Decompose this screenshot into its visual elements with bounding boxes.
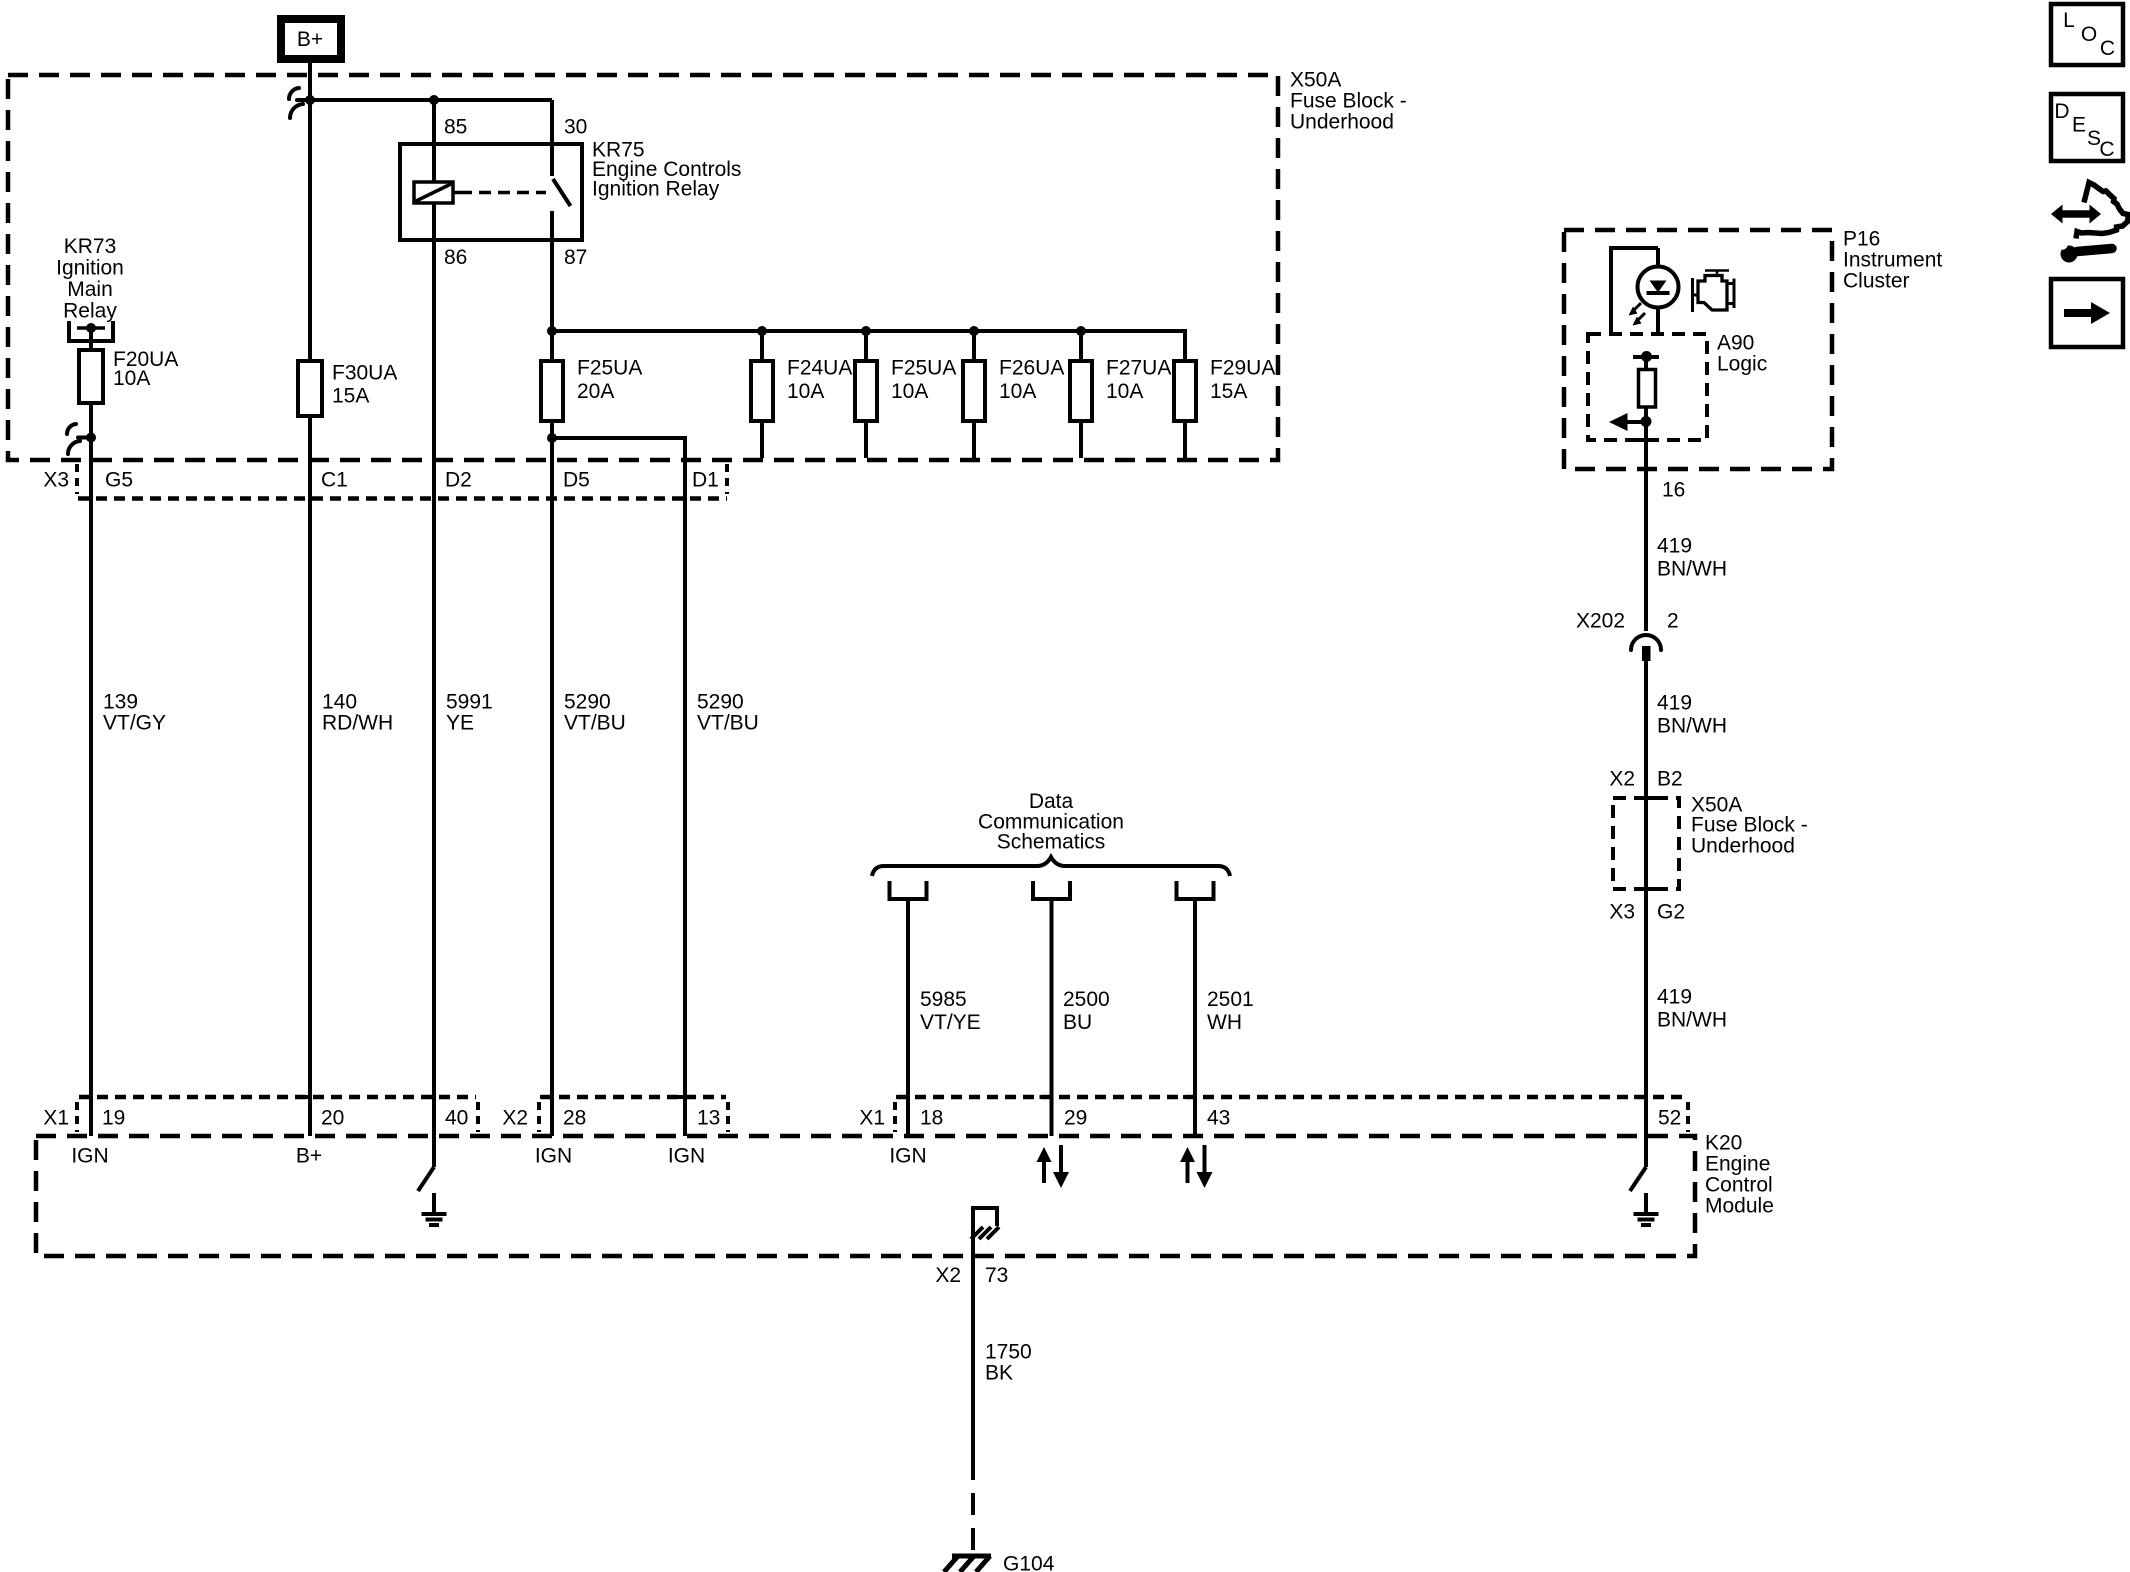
svg-text:F24UA: F24UA [787, 357, 852, 380]
svg-text:WH: WH [1207, 1011, 1242, 1034]
svg-text:G104: G104 [1003, 1553, 1055, 1572]
connector row X3 separators [77, 464, 727, 494]
svg-text:P16: P16 [1843, 228, 1880, 251]
connector to schematic 1 [890, 881, 927, 899]
wire B+ lower to pin 20 [308, 416, 312, 1136]
brace for data communication [872, 857, 1230, 876]
svg-text:10A: 10A [113, 367, 150, 390]
A90 output arrow [1609, 413, 1652, 431]
DESC legend box [2051, 94, 2123, 161]
svg-text:RD/WH: RD/WH [322, 712, 393, 735]
connector to schematic 3 [1177, 881, 1214, 899]
wire label 419 BN/WH (1) [1657, 535, 1727, 581]
wire 2500 [1050, 899, 1054, 1136]
svg-text:D2: D2 [445, 469, 472, 492]
fuse block X50A pass-through box [1613, 798, 1679, 889]
fuse F26UA [963, 331, 1064, 458]
svg-text:Fuse Block -: Fuse Block - [1290, 90, 1407, 113]
wire B+ vertical [308, 59, 312, 361]
connector break symbol at B+ node [289, 88, 310, 118]
svg-text:Ignition: Ignition [56, 257, 124, 280]
diagnostic icon (arrows and vehicle) [2051, 183, 2129, 239]
svg-text:2: 2 [1667, 610, 1679, 633]
wire label 140 RD/WH [322, 691, 393, 735]
svg-text:Underhood: Underhood [1691, 835, 1795, 858]
svg-text:Schematics: Schematics [997, 831, 1106, 854]
wire F25UA to D5 [550, 421, 554, 1136]
wire pin 85 [432, 100, 436, 182]
svg-text:52: 52 [1658, 1107, 1681, 1130]
label K20 Engine Control Module [1705, 1132, 1774, 1218]
svg-text:VT/BU: VT/BU [697, 712, 759, 735]
ECM K20 box [36, 1136, 1695, 1256]
fuse F30UA [298, 361, 397, 416]
svg-text:B+: B+ [296, 1145, 322, 1168]
label A90 Logic [1717, 332, 1767, 376]
svg-text:43: 43 [1207, 1107, 1230, 1130]
next-page arrow box [2051, 279, 2123, 347]
svg-text:BN/WH: BN/WH [1657, 558, 1727, 581]
svg-text:F26UA: F26UA [999, 357, 1064, 380]
node D5 branch [547, 433, 557, 443]
svg-text:X1: X1 [43, 1107, 69, 1130]
wire 2501 [1193, 899, 1197, 1136]
connector X202 pin 2 [1576, 610, 1679, 662]
pin ticks [79, 1095, 1646, 1099]
svg-text:B2: B2 [1657, 768, 1683, 791]
svg-text:X3: X3 [43, 469, 69, 492]
svg-text:K20: K20 [1705, 1132, 1742, 1155]
resistor in A90 [1639, 357, 1656, 421]
svg-text:O: O [2081, 23, 2097, 46]
relay KR75 link dashed [460, 191, 546, 195]
svg-text:D5: D5 [563, 469, 590, 492]
fuse F29UA [1174, 357, 1275, 459]
wire A90 to pin 16 [1644, 421, 1648, 631]
svg-text:5985: 5985 [920, 988, 967, 1011]
svg-text:IGN: IGN [668, 1145, 705, 1168]
svg-text:G5: G5 [105, 469, 133, 492]
svg-text:IGN: IGN [889, 1145, 926, 1168]
svg-text:X2: X2 [502, 1107, 528, 1130]
label KR75 Engine Controls Ignition Relay [592, 139, 741, 201]
svg-text:F25UA: F25UA [577, 357, 642, 380]
svg-text:X1: X1 [859, 1107, 885, 1130]
wire label 1750 BK [985, 1341, 1032, 1385]
svg-text:F27UA: F27UA [1106, 357, 1171, 380]
svg-text:D1: D1 [692, 469, 719, 492]
node bus F26UA [969, 326, 979, 336]
label P16 Instrument Cluster [1843, 228, 1942, 293]
svg-text:BN/WH: BN/WH [1657, 1009, 1727, 1032]
svg-text:Underhood: Underhood [1290, 111, 1394, 134]
svg-text:2500: 2500 [1063, 988, 1110, 1011]
svg-text:B+: B+ [297, 28, 323, 51]
svg-text:419: 419 [1657, 692, 1692, 715]
relay U1 KR75 box [400, 144, 582, 240]
svg-text:73: 73 [985, 1264, 1008, 1287]
wire label 2500 BU [1063, 988, 1110, 1034]
wire label 5290 VT/BU (D5) [564, 691, 626, 735]
ECM pin row dotted lines [79, 1095, 1686, 1100]
svg-text:29: 29 [1064, 1107, 1087, 1130]
svg-text:5991: 5991 [446, 691, 493, 714]
svg-text:13: 13 [697, 1107, 720, 1130]
connector row X3 dotted line [78, 496, 727, 501]
switch and ground at pin 52 [1630, 1167, 1659, 1225]
svg-text:X3: X3 [1609, 901, 1635, 924]
svg-text:X50A: X50A [1290, 69, 1341, 92]
svg-text:Module: Module [1705, 1195, 1774, 1218]
wire pin 86 to D2/40 [432, 203, 436, 1167]
svg-text:E: E [2072, 114, 2086, 137]
svg-text:Cluster: Cluster [1843, 270, 1910, 293]
svg-text:5290: 5290 [564, 691, 611, 714]
node G5 junction [86, 433, 96, 443]
svg-text:A90: A90 [1717, 332, 1754, 355]
label KR73 Ignition Main Relay [56, 235, 124, 323]
wire label 139 VT/GY [103, 691, 166, 735]
svg-text:86: 86 [444, 246, 467, 269]
relay KR75 switch blade [553, 179, 571, 206]
svg-text:X2: X2 [935, 1264, 961, 1287]
svg-text:419: 419 [1657, 535, 1692, 558]
fuse block X50A box [8, 75, 1278, 460]
svg-text:Engine: Engine [1705, 1153, 1770, 1176]
relay KR75 coil [414, 182, 460, 203]
svg-text:19: 19 [102, 1107, 125, 1130]
node bus F27UA [1076, 326, 1086, 336]
svg-text:X202: X202 [1576, 610, 1625, 633]
svg-text:BU: BU [1063, 1011, 1092, 1034]
wire pin 73 [971, 1256, 975, 1458]
ground G104 [944, 1553, 1055, 1572]
svg-text:G2: G2 [1657, 901, 1685, 924]
wire 5985 [906, 899, 910, 1136]
svg-text:16: 16 [1662, 479, 1685, 502]
svg-text:28: 28 [563, 1107, 586, 1130]
switch and ground at pin 40 [418, 1167, 447, 1225]
engine icon (MIL) [1693, 271, 1735, 313]
svg-text:Control: Control [1705, 1174, 1773, 1197]
label X3 G2 [1609, 901, 1685, 924]
svg-text:C: C [2100, 37, 2115, 60]
label X50A Fuse Block - Underhood (small) [1691, 794, 1808, 858]
power symbol B+ [281, 19, 341, 59]
svg-text:C1: C1 [321, 469, 348, 492]
LOC legend box [2051, 4, 2123, 65]
connector break symbol at G5 [67, 424, 91, 454]
svg-text:F29UA: F29UA [1210, 357, 1275, 380]
svg-text:D: D [2054, 100, 2069, 123]
logic module A90 box [1588, 334, 1707, 440]
svg-text:F25UA: F25UA [891, 357, 956, 380]
svg-text:15A: 15A [1210, 380, 1247, 403]
svg-text:18: 18 [920, 1107, 943, 1130]
svg-text:IGN: IGN [535, 1145, 572, 1168]
wire pin 30 [550, 100, 554, 176]
svg-text:5290: 5290 [697, 691, 744, 714]
label X50A Fuse Block - Underhood [1290, 69, 1407, 134]
wire branch D5 to D1 [552, 438, 685, 1136]
svg-text:BN/WH: BN/WH [1657, 715, 1727, 738]
node 85 junction [429, 95, 439, 105]
svg-text:X2: X2 [1609, 768, 1635, 791]
svg-text:L: L [2063, 9, 2075, 32]
node bus 87 [547, 326, 557, 336]
svg-text:10A: 10A [1106, 380, 1143, 403]
svg-text:15A: 15A [332, 385, 369, 408]
svg-text:20A: 20A [577, 380, 614, 403]
data arrows pin 43 [1180, 1145, 1213, 1188]
wire top bus [310, 98, 552, 102]
wire label 2501 WH [1207, 988, 1254, 1034]
fuse F24UA [751, 331, 852, 458]
svg-text:F30UA: F30UA [332, 362, 397, 385]
fuse F27UA [1070, 331, 1171, 458]
svg-text:YE: YE [446, 712, 474, 735]
svg-text:87: 87 [564, 246, 587, 269]
svg-text:140: 140 [322, 691, 357, 714]
LED emission arrows [1629, 303, 1646, 326]
pass-through pin ticks [1637, 798, 1656, 889]
wire LED bracket [1611, 248, 1658, 334]
svg-text:VT/BU: VT/BU [564, 712, 626, 735]
svg-text:VT/GY: VT/GY [103, 712, 166, 735]
ECM pin row separators [77, 1102, 1688, 1132]
node bus F25UA [861, 326, 871, 336]
svg-text:VT/YE: VT/YE [920, 1011, 981, 1034]
diagnostic icon wrench [2057, 239, 2112, 262]
svg-text:40: 40 [445, 1107, 468, 1130]
label Data Communication Schematics [978, 790, 1124, 854]
svg-text:30: 30 [564, 116, 587, 139]
svg-text:IGN: IGN [71, 1145, 108, 1168]
fuse F25UA 20A [541, 357, 642, 422]
svg-text:2501: 2501 [1207, 988, 1254, 1011]
svg-text:1750: 1750 [985, 1341, 1032, 1364]
wire label 5985 VT/YE [920, 988, 981, 1034]
wire X202 to fuse block [1644, 661, 1648, 1167]
wire pin 87 down [550, 211, 554, 361]
wire label 419 BN/WH (3) [1657, 986, 1727, 1032]
wire label 419 BN/WH (2) [1657, 692, 1727, 738]
indicator LED [1638, 248, 1679, 334]
svg-text:Ignition Relay: Ignition Relay [592, 178, 720, 201]
node bus F24UA [757, 326, 767, 336]
wire fuse F20UA to pin 19 [89, 403, 93, 1136]
svg-text:Instrument: Instrument [1843, 249, 1942, 272]
fuse F25UA (second) [855, 331, 956, 458]
wire label 5991 YE [446, 691, 493, 735]
fuse F20UA [79, 328, 178, 403]
svg-text:C: C [2099, 138, 2114, 161]
svg-text:Relay: Relay [63, 300, 117, 323]
svg-text:139: 139 [103, 691, 138, 714]
A90 supply bar [1633, 351, 1659, 362]
svg-text:Logic: Logic [1717, 353, 1767, 376]
svg-text:10A: 10A [891, 380, 928, 403]
wire dashed to G104 [971, 1458, 975, 1554]
wire fuse bus [552, 331, 1185, 361]
svg-text:85: 85 [444, 116, 467, 139]
relay KR73 contact [69, 321, 113, 341]
svg-text:20: 20 [321, 1107, 344, 1130]
svg-text:Fuse Block -: Fuse Block - [1691, 814, 1808, 837]
svg-text:Main: Main [67, 278, 113, 301]
instrument cluster P16 box [1564, 230, 1832, 469]
svg-text:10A: 10A [999, 380, 1036, 403]
connector to schematic 2 [1033, 881, 1070, 899]
wire label 5290 VT/BU (D1) [697, 691, 759, 735]
node B+ junction [305, 95, 315, 105]
svg-text:10A: 10A [787, 380, 824, 403]
label X2 B2 [1609, 768, 1682, 791]
svg-text:KR73: KR73 [64, 235, 117, 258]
data arrows pin 29 [1037, 1145, 1070, 1188]
svg-text:BK: BK [985, 1362, 1013, 1385]
svg-text:419: 419 [1657, 986, 1692, 1009]
internal ground reference at pin 73 [971, 1208, 999, 1256]
